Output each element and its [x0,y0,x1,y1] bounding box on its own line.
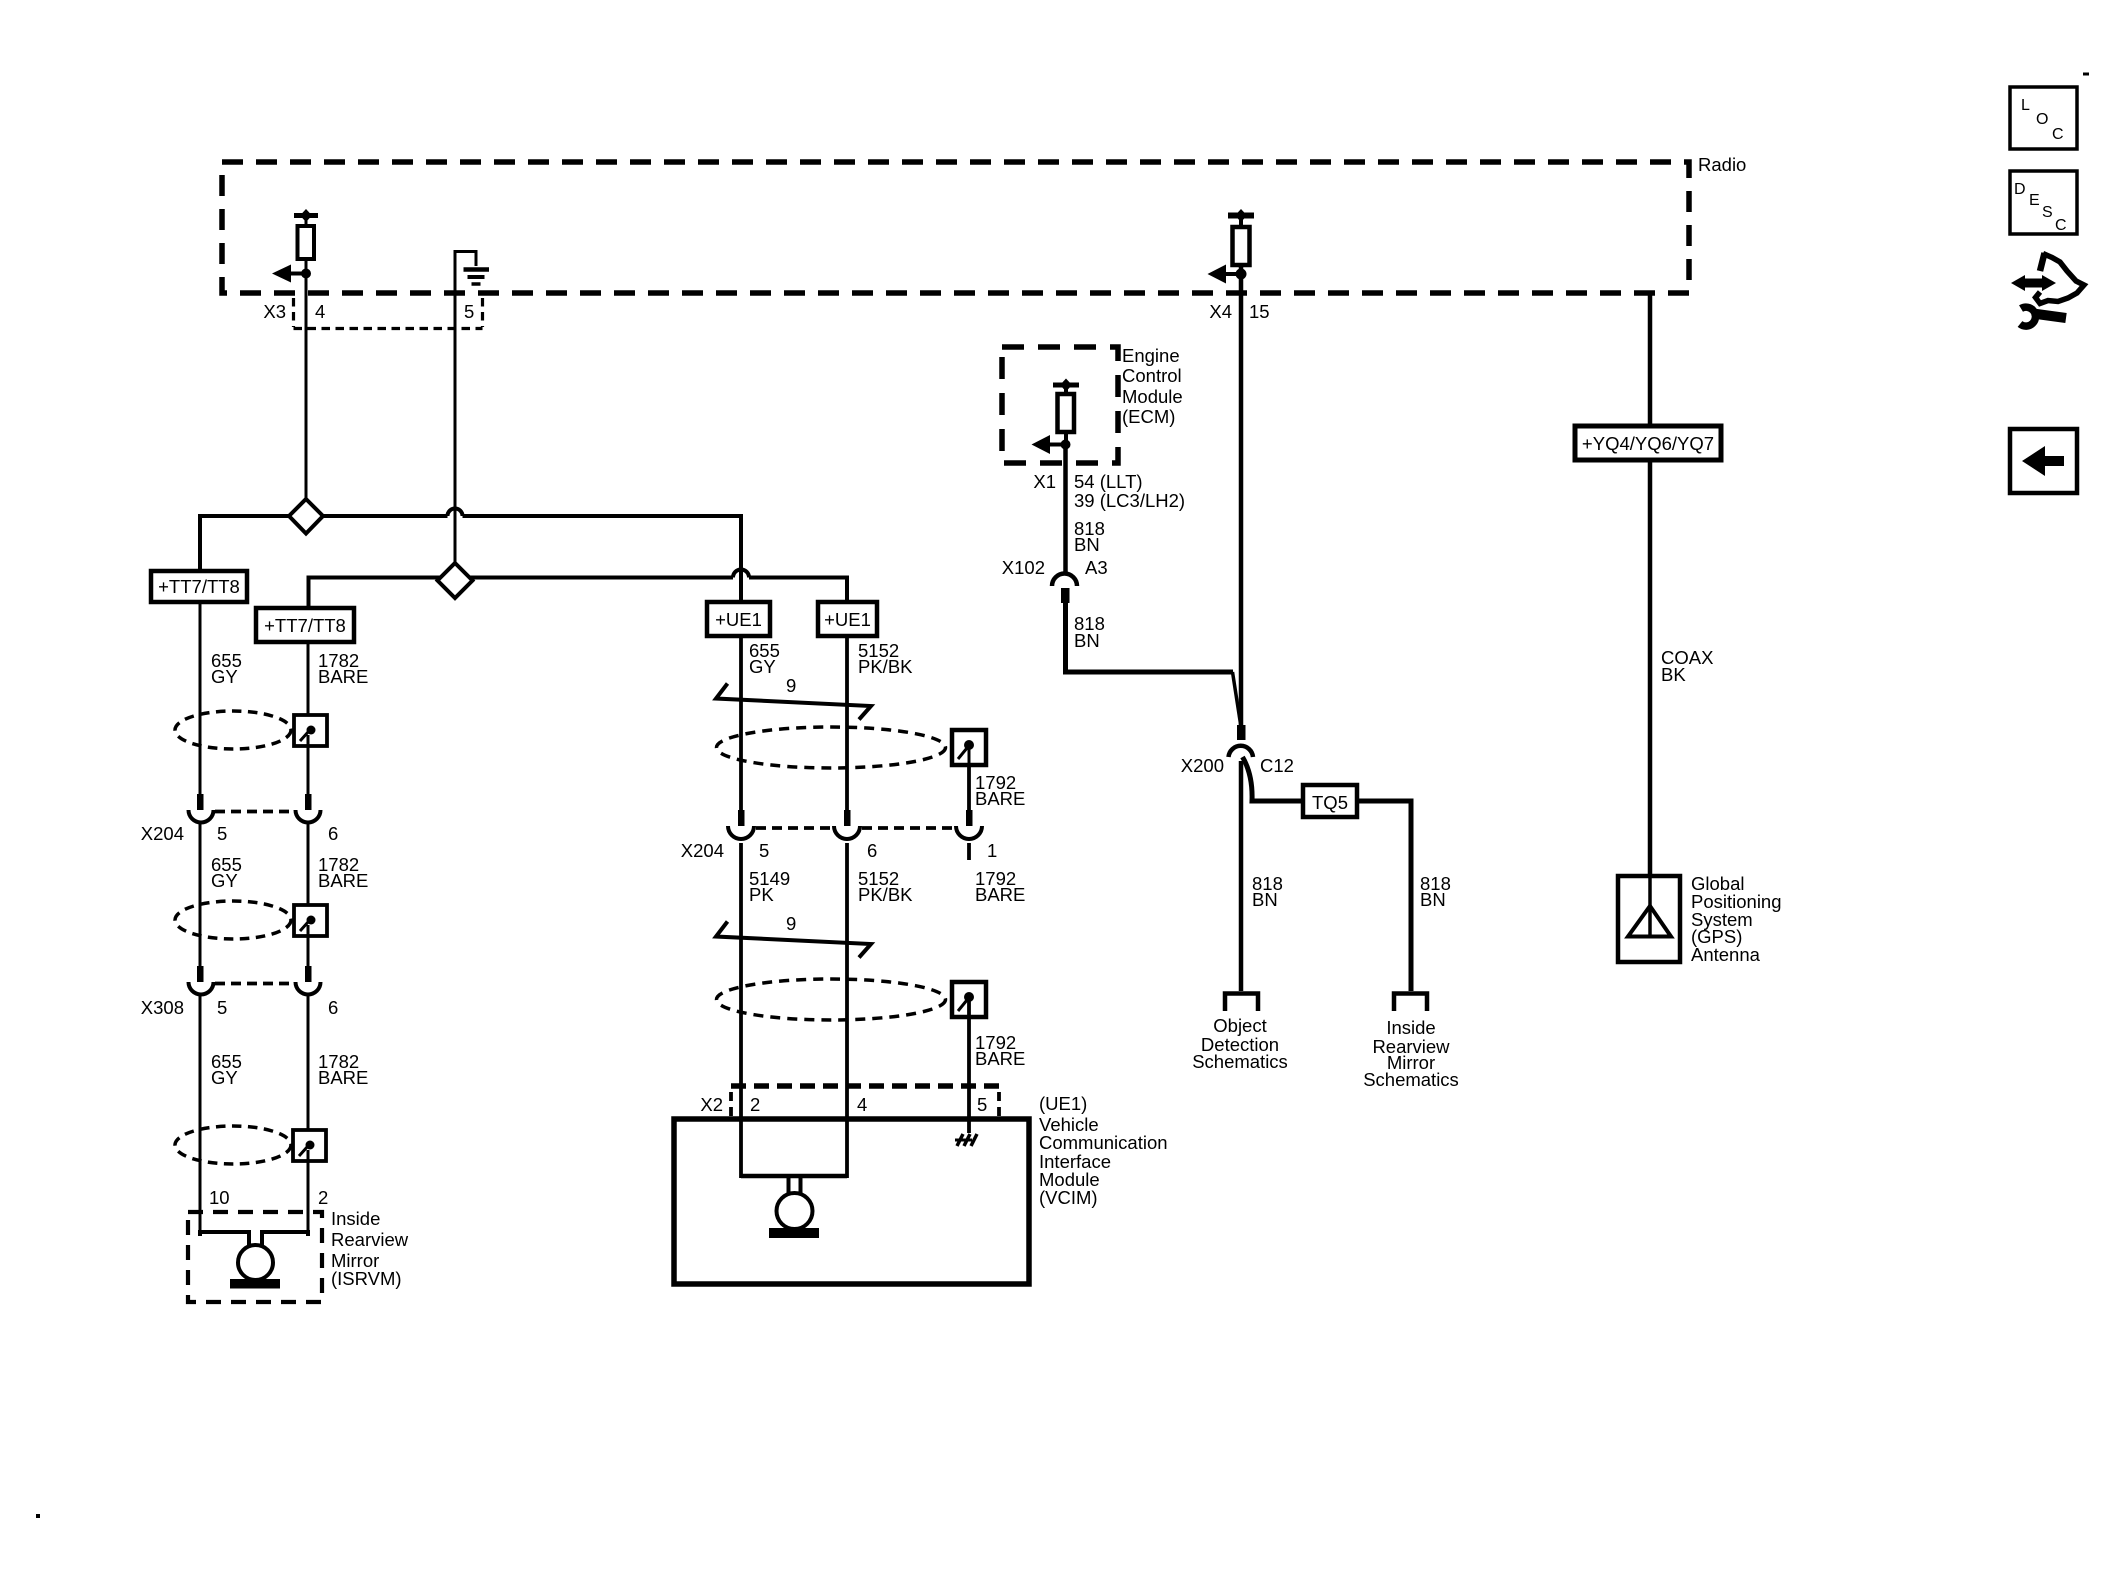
back arrow icon box [2010,429,2077,493]
wire 818 BN from X102 to X200 [1066,603,1234,672]
ISRVM internal wiring to lamp [200,1232,249,1247]
svg-text:GY: GY [211,1067,238,1088]
svg-text:6: 6 [328,997,338,1018]
svg-text:Radio: Radio [1698,154,1746,175]
svg-text:(ISRVM): (ISRVM) [331,1268,402,1289]
svg-text:E: E [2029,192,2040,209]
svg-text:X200: X200 [1181,755,1224,776]
wire 655 GY middle column segment 1 [739,636,743,810]
svg-text:Inside: Inside [331,1208,380,1229]
shield drain tap box (middle lower) [952,982,986,1017]
wire 655 GY left column segment 1 [199,602,202,794]
svg-text:C12: C12 [1260,755,1294,776]
junction dot (ECM antenna) [1061,440,1071,450]
svg-text:BARE: BARE [975,788,1025,809]
resistor element of antenna (X4) [1233,227,1250,265]
svg-text:+YQ4/YQ6/YQ7: +YQ4/YQ6/YQ7 [1582,433,1714,454]
wire 1782 BARE left column segment 2 [307,822,310,966]
svg-text:PK/BK: PK/BK [858,656,913,677]
svg-text:+TT7/TT8: +TT7/TT8 [158,576,240,597]
wire 655 GY left column segment 3 [199,994,202,1236]
wire branch from X200 to TQ5 [1243,757,1304,801]
connector X200 terminal pin [1237,725,1246,740]
terminal socket arc (X308-6) [296,982,321,995]
svg-text:O: O [2036,111,2048,128]
svg-text:C: C [2055,217,2067,234]
svg-text:Communication: Communication [1039,1132,1168,1153]
svg-text:X204: X204 [681,840,724,861]
GPS antenna box [1618,876,1680,962]
wire coax from Radio to GPS antenna [1648,293,1653,876]
svg-text:BARE: BARE [318,1067,368,1088]
terminal socket arc (X204-1 middle) [956,826,982,839]
antenna symbol top bar (ECM) [1053,383,1079,388]
shield ellipse 1 (left column) [175,711,291,749]
ground symbol inside Radio box (pin 5 branch) [455,252,476,294]
wire from TQ5 to Inside Rearview Mirror Schematics [1357,801,1411,991]
wire antenna stem (X4) [1239,215,1243,227]
svg-text:BN: BN [1074,630,1100,651]
svg-text:(UE1): (UE1) [1039,1093,1087,1114]
wire 1782 BARE left column segment 3 [307,994,310,1236]
svg-text:BARE: BARE [975,884,1025,905]
svg-text:L: L [2021,97,2030,114]
svg-text:BN: BN [1420,889,1446,910]
svg-text:(VCIM): (VCIM) [1039,1187,1098,1208]
antenna triangle (GPS) [1648,876,1652,935]
wire down from X200 to Object Detection [1239,761,1244,991]
terminal pin (X204-6 male) [305,794,312,810]
svg-text:PK: PK [749,884,774,905]
connector X102 terminal pin [1061,588,1070,603]
svg-text:BARE: BARE [975,1048,1025,1069]
terminal pin (X308-6 male) [305,966,312,982]
shield drain tap box 2 (left column) [294,905,327,936]
shield drain tap box 1 (left column) [294,715,327,746]
bus wire 1 (655 GY distribution) [200,516,448,571]
twisted pair symbol 2 [716,922,871,958]
bus wire 2 (1782 BARE distribution) [309,578,734,609]
svg-text:X308: X308 [141,997,184,1018]
svg-text:(ECM): (ECM) [1122,406,1175,427]
terminal pin (X204-6 middle) [844,810,851,826]
svg-text:9: 9 [786,675,796,696]
svg-text:BARE: BARE [318,666,368,687]
arrow to the left (ECM) [1047,443,1065,447]
svg-text:Inside: Inside [1386,1017,1435,1038]
svg-text:+TT7/TT8: +TT7/TT8 [264,615,346,636]
power tag box +UE1 (first) [707,602,770,636]
svg-text:15: 15 [1249,301,1270,322]
svg-text:X4: X4 [1209,301,1232,322]
connector X200 socket arc [1229,746,1254,757]
wire 1792 BARE drain (lower) [967,1000,971,1086]
svg-text:GY: GY [211,666,238,687]
svg-text:X1: X1 [1033,471,1056,492]
svg-text:6: 6 [867,840,877,861]
shield ellipse (middle column, lower) [717,979,946,1020]
svg-text:5: 5 [759,840,769,861]
connector X102 socket arc [1052,573,1077,586]
ground bar (VCIM) [769,1228,819,1238]
connector X308 dashed link [215,982,294,986]
svg-text:A3: A3 [1085,557,1108,578]
svg-text:Object: Object [1213,1015,1266,1036]
antenna symbol top diamond (radio X3-4) [300,209,312,222]
stray printing dot (bottom left) [36,1514,40,1518]
svg-text:D: D [2014,181,2026,198]
svg-text:10: 10 [209,1187,230,1208]
terminal socket arc (X204-5 middle) [728,826,754,839]
LOC icon box [2010,87,2077,149]
svg-text:4: 4 [857,1094,867,1115]
VCIM module box [674,1119,1029,1284]
ground bar (ISRVM) [230,1279,280,1289]
splice pack TQ5 [1303,785,1357,817]
svg-text:BN: BN [1252,889,1278,910]
svg-text:X102: X102 [1002,557,1045,578]
off-page bracket (Object Detection) [1225,994,1258,1012]
wire: X3 pin5 down to splice diamond [454,293,457,564]
junction dot (X4 antenna) [1236,269,1247,280]
terminal pin (X204-5 male) [197,794,204,810]
wire 1782 BARE left column segment 1 [307,642,310,794]
wire below resistor (ECM) [1064,432,1068,448]
shield ellipse (middle column, upper) [717,727,946,768]
svg-text:GY: GY [211,870,238,891]
off-page bracket (Inside Rearview Mirror) [1394,994,1427,1012]
svg-text:Schematics: Schematics [1192,1051,1288,1072]
svg-text:Engine: Engine [1122,345,1180,366]
lamp circle (ISRVM) [238,1245,273,1280]
stray printing dot (top right) [2083,73,2089,76]
VCIM internal wiring to transceiver [739,1086,743,1178]
shield ellipse 2 (left column) [175,901,291,939]
twisted pair symbol 1 [716,684,871,720]
svg-text:PK/BK: PK/BK [858,884,913,905]
svg-text:2: 2 [318,1187,328,1208]
svg-text:BARE: BARE [318,870,368,891]
splice diamond on bus 2 [438,563,473,598]
svg-text:GY: GY [749,656,776,677]
svg-text:X3: X3 [263,301,286,322]
connector X3 dashed outline [292,298,295,327]
svg-text:5: 5 [217,823,227,844]
svg-text:1: 1 [987,840,997,861]
power tag box +TT7/TT8 (second) [256,608,354,642]
svg-text:+UE1: +UE1 [824,609,871,630]
antenna symbol top bar (radio X3-4) [294,213,318,218]
svg-text:2: 2 [750,1094,760,1115]
ECM dashed enclosure box [1002,347,1118,463]
Radio dashed enclosure box [222,162,1689,293]
antenna symbol top diamond (ECM) [1060,379,1072,392]
terminal pin (X204-1 middle) [966,810,973,826]
power tag box +TT7/TT8 (left) [151,571,247,602]
shield ellipse 3 (left column) [175,1126,291,1164]
resistor element of antenna (radio X3-4) [298,226,315,259]
wire antenna stem (ECM) [1064,385,1068,394]
antenna symbol top diamond (radio X4-15) [1235,209,1247,222]
svg-text:X204: X204 [141,823,184,844]
wire 5152 PK/BK middle column segment 2 [845,843,849,1086]
svg-text:Antenna: Antenna [1691,944,1761,965]
wire hop over first UE1 wire on bus 2 [733,570,749,578]
svg-text:TQ5: TQ5 [1312,792,1348,813]
terminal socket arc (X204-6) [296,810,321,822]
wire 655 GY left column segment 2 [199,822,202,966]
svg-text:Schematics: Schematics [1363,1069,1459,1090]
wire 1792 BARE drain (upper) [967,765,971,810]
splice diamond on bus 1 [289,499,323,534]
svg-text:Rearview: Rearview [331,1229,409,1250]
terminal socket arc (X204-6 middle) [834,826,860,839]
svg-text:5: 5 [464,301,474,322]
svg-text:C: C [2052,126,2064,143]
arrow to the left (X4) [1222,272,1241,276]
svg-text:+UE1: +UE1 [715,609,762,630]
DESC icon box [2010,171,2077,234]
svg-text:9: 9 [786,913,796,934]
wire 1792 BARE middle column segment 2 [967,843,971,860]
svg-text:Control: Control [1122,365,1182,386]
diagnostic icon: double arrow, outline and wrench [2011,253,2084,326]
wire 5149 PK middle column segment 2 [739,843,743,1086]
connector X204 dashed links (middle) [756,826,834,830]
svg-text:X2: X2 [700,1094,723,1115]
wire: X3 pin4 antenna feed down to splice [305,215,308,499]
junction dot at antenna output [301,269,311,279]
internal chassis ground symbol (VCIM) [957,1134,963,1146]
svg-text:BN: BN [1074,534,1100,555]
power tag box +UE1 (second) [818,602,877,636]
svg-text:54 (LLT): 54 (LLT) [1074,471,1143,492]
svg-text:6: 6 [328,823,338,844]
terminal socket arc (X308-5) [189,982,214,995]
svg-text:S: S [2042,204,2053,221]
svg-text:39 (LC3/LH2): 39 (LC3/LH2) [1074,490,1185,511]
ISRVM dashed enclosure [188,1212,322,1302]
harness tag box +YQ4/YQ6/YQ7 [1575,426,1721,460]
svg-text:5: 5 [977,1094,987,1115]
svg-text:BK: BK [1661,664,1686,685]
terminal pin (X204-5 middle) [738,810,745,826]
wire X1 pin down from ECM [1063,448,1068,575]
terminal pin (X308-5 male) [197,966,204,982]
wire hop over pin5 wire on bus 1 [448,509,463,516]
svg-text:4: 4 [315,301,325,322]
terminal socket arc (X204-5) [189,810,214,822]
wire X4 pin15 down to X200 [1239,265,1244,727]
wire 5152 PK/BK middle column segment 1 [845,636,849,810]
svg-text:5: 5 [217,997,227,1018]
arrow to the left from antenna junction [287,272,306,276]
antenna symbol top bar (radio X4-15) [1228,213,1254,219]
resistor element of antenna (ECM) [1058,394,1075,432]
wire to internal ground (VCIM pin5) [967,1086,971,1133]
shield drain tap box 3 (left column) [293,1130,326,1161]
svg-text:Module: Module [1122,386,1183,407]
shield drain tap box (middle upper) [952,730,986,765]
connector X204 dashed link (left col) [215,810,294,814]
connector X2 dashed row [731,1083,999,1089]
transceiver lamp circle (VCIM) [777,1193,813,1229]
